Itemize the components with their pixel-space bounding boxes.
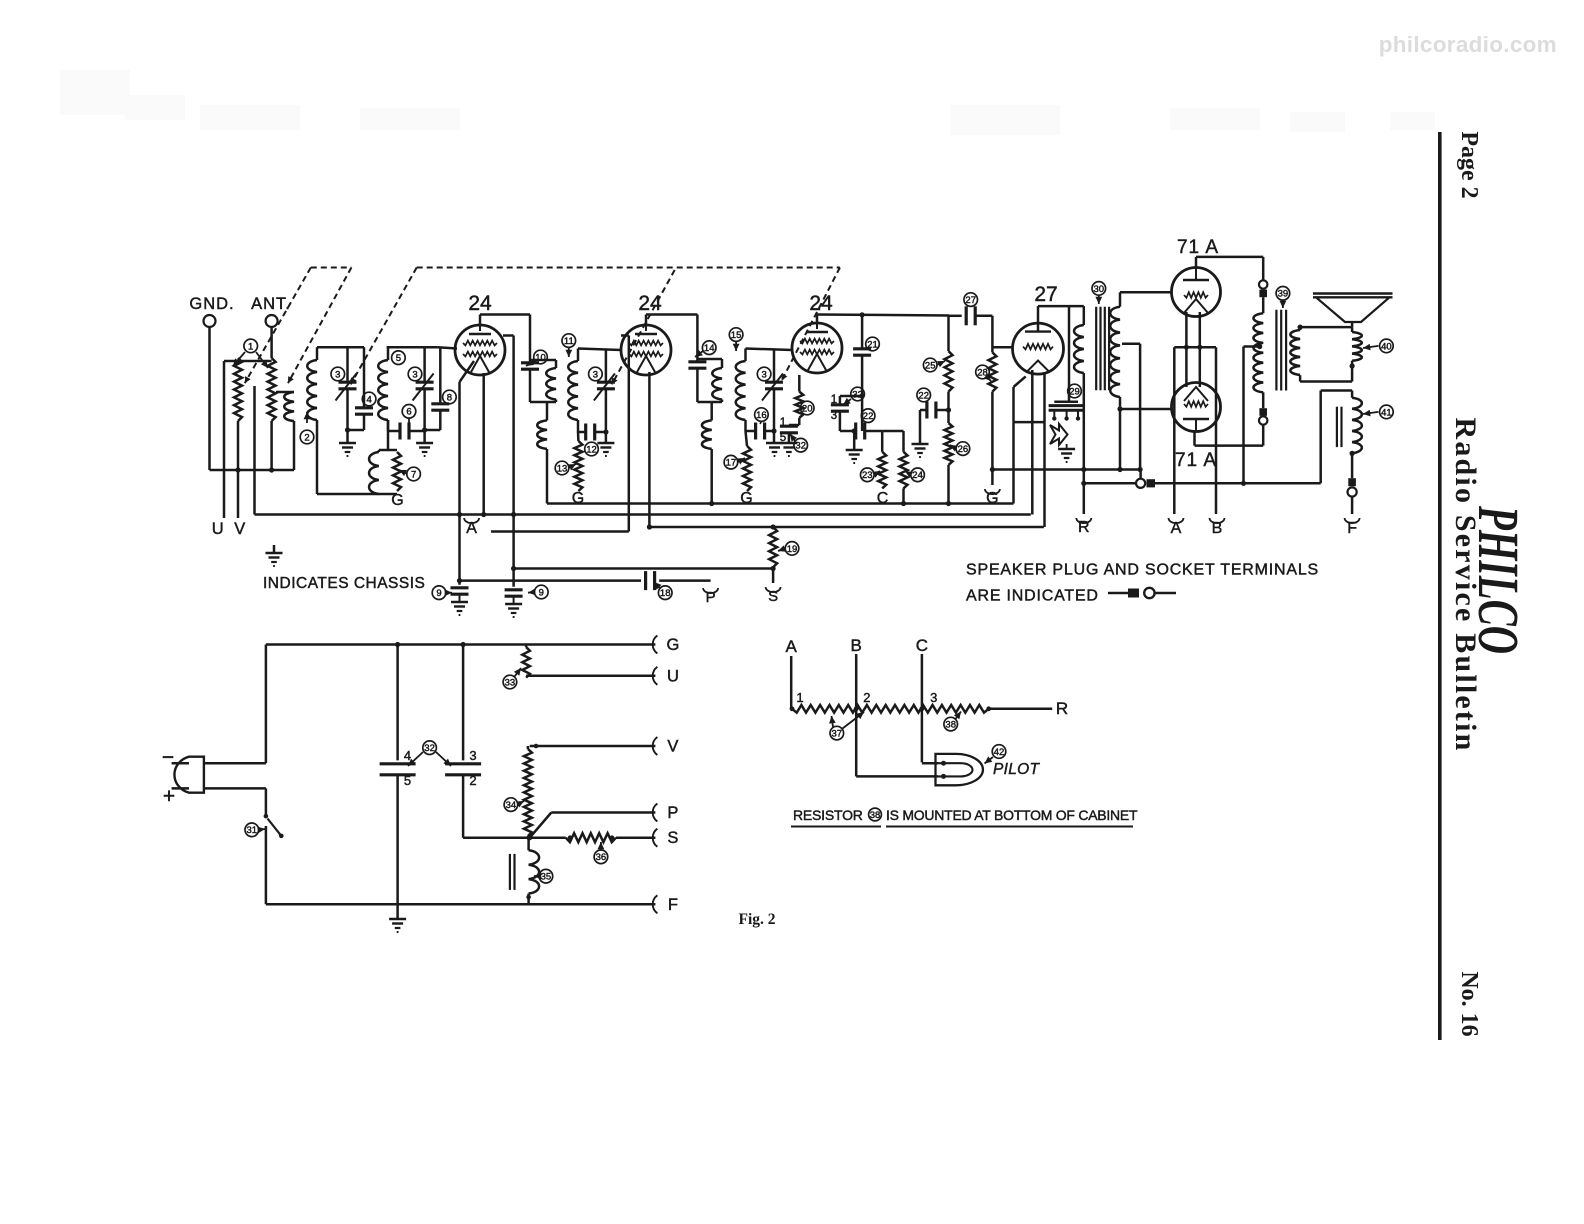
svg-text:27: 27 — [965, 295, 976, 306]
svg-text:IS MOUNTED AT BOTTOM OF CABINE: IS MOUNTED AT BOTTOM OF CABINET — [886, 807, 1138, 823]
svg-text:3: 3 — [593, 369, 598, 380]
svg-text:32: 32 — [424, 743, 435, 754]
svg-text:U V: U V — [212, 520, 249, 538]
svg-text:12: 12 — [586, 444, 597, 455]
svg-text:40: 40 — [1381, 341, 1392, 352]
svg-text:3: 3 — [412, 369, 417, 380]
svg-text:3: 3 — [469, 748, 476, 763]
svg-text:1: 1 — [780, 417, 786, 429]
svg-text:SPEAKER PLUG AND SOCKET TERMIN: SPEAKER PLUG AND SOCKET TERMINALS — [966, 562, 1319, 579]
svg-text:37: 37 — [832, 729, 843, 740]
svg-text:26: 26 — [958, 444, 969, 455]
svg-text:PILOT: PILOT — [993, 761, 1041, 778]
svg-text:4: 4 — [404, 748, 411, 763]
svg-text:1: 1 — [796, 690, 803, 705]
svg-text:15: 15 — [731, 330, 742, 341]
svg-text:PHILCO: PHILCO — [1466, 505, 1531, 654]
svg-text:No. 16: No. 16 — [1456, 971, 1482, 1036]
svg-text:2: 2 — [863, 690, 870, 705]
svg-text:35: 35 — [541, 872, 552, 883]
svg-text:R: R — [1056, 699, 1068, 718]
svg-text:V: V — [667, 738, 678, 756]
svg-text:71 A: 71 A — [1177, 237, 1219, 258]
svg-text:11: 11 — [564, 336, 574, 347]
svg-text:24: 24 — [468, 292, 492, 315]
svg-text:23: 23 — [862, 470, 873, 481]
svg-text:P: P — [667, 804, 678, 822]
svg-text:C: C — [916, 636, 928, 655]
svg-text:32: 32 — [852, 389, 863, 400]
svg-text:71 A: 71 A — [1175, 450, 1217, 471]
svg-text:22: 22 — [918, 390, 929, 401]
svg-text:34: 34 — [506, 800, 517, 811]
svg-text:27: 27 — [1034, 283, 1057, 306]
svg-text:7: 7 — [411, 469, 416, 480]
svg-text:38: 38 — [945, 720, 956, 731]
svg-text:S: S — [667, 829, 678, 847]
svg-text:17: 17 — [726, 458, 737, 469]
svg-text:10: 10 — [535, 352, 546, 363]
svg-text:31: 31 — [247, 825, 258, 836]
svg-text:38: 38 — [870, 810, 881, 821]
svg-text:philcoradio.com: philcoradio.com — [1379, 32, 1557, 57]
svg-text:Fig. 2: Fig. 2 — [738, 911, 775, 928]
svg-text:1: 1 — [248, 341, 253, 352]
svg-text:S: S — [768, 588, 778, 605]
svg-text:42: 42 — [994, 747, 1005, 758]
svg-text:16: 16 — [756, 410, 767, 421]
svg-text:18: 18 — [660, 588, 671, 599]
svg-text:25: 25 — [925, 360, 936, 371]
svg-text:−: − — [162, 746, 174, 769]
svg-text:5: 5 — [396, 353, 401, 364]
svg-text:3: 3 — [335, 369, 340, 380]
svg-text:8: 8 — [447, 392, 452, 403]
svg-text:GND.: GND. — [189, 295, 234, 313]
svg-text:20: 20 — [802, 403, 813, 414]
svg-text:21: 21 — [867, 339, 878, 350]
svg-text:Page 2: Page 2 — [1456, 131, 1482, 198]
svg-text:32: 32 — [795, 441, 806, 452]
svg-text:2: 2 — [469, 773, 476, 788]
svg-text:39: 39 — [1278, 289, 1289, 300]
svg-text:29: 29 — [1069, 386, 1080, 397]
svg-text:ARE INDICATED: ARE INDICATED — [966, 588, 1099, 605]
svg-text:33: 33 — [505, 677, 516, 688]
svg-text:P: P — [706, 589, 716, 606]
svg-text:3: 3 — [761, 369, 766, 380]
svg-text:14: 14 — [704, 343, 715, 354]
svg-text:B: B — [851, 636, 862, 655]
svg-text:1: 1 — [831, 394, 837, 406]
svg-text:13: 13 — [557, 463, 568, 474]
svg-text:ANT.: ANT. — [251, 295, 291, 313]
svg-text:INDICATES CHASSIS: INDICATES CHASSIS — [263, 575, 425, 592]
svg-text:G: G — [666, 636, 679, 654]
svg-text:36: 36 — [596, 852, 607, 863]
svg-text:30: 30 — [1094, 284, 1105, 295]
svg-text:RESISTOR: RESISTOR — [793, 807, 863, 823]
svg-text:3: 3 — [930, 690, 937, 705]
svg-text:4: 4 — [366, 394, 371, 405]
svg-text:9: 9 — [539, 587, 544, 598]
svg-text:2: 2 — [304, 432, 309, 443]
svg-text:6: 6 — [406, 407, 411, 418]
svg-text:U: U — [667, 667, 679, 685]
svg-text:41: 41 — [1381, 407, 1392, 418]
svg-text:22: 22 — [863, 411, 874, 422]
svg-text:5: 5 — [404, 773, 411, 788]
svg-text:F: F — [668, 896, 678, 914]
svg-text:5: 5 — [780, 432, 786, 444]
svg-text:24: 24 — [638, 292, 662, 315]
svg-text:9: 9 — [436, 588, 441, 599]
svg-text:19: 19 — [787, 544, 798, 555]
svg-text:+: + — [163, 785, 175, 808]
svg-text:A: A — [786, 637, 798, 656]
svg-text:3: 3 — [831, 410, 837, 422]
svg-text:24: 24 — [912, 470, 923, 481]
